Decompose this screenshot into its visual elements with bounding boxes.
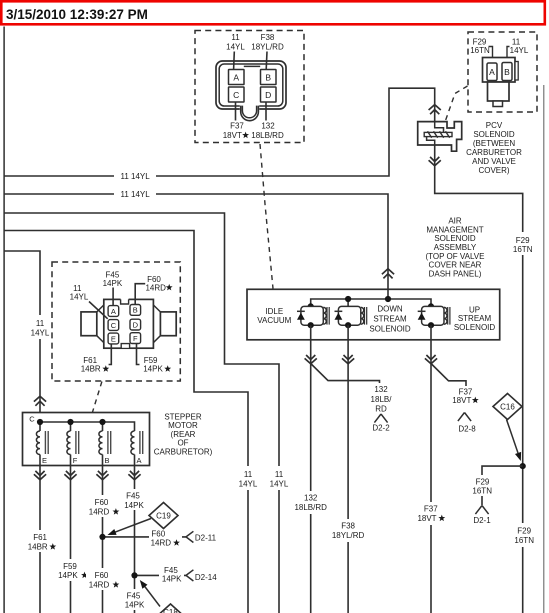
air management assembly box <box>247 289 500 340</box>
inline label F45 14PK (upper) <box>120 489 150 510</box>
inline label F59 14PK* <box>55 559 91 581</box>
stepper motor box <box>23 413 150 466</box>
arrow C18 to junction <box>143 584 161 607</box>
up chevrons on PCV feed wire <box>429 105 441 110</box>
svg-text:132: 132 <box>374 385 388 394</box>
svg-text:14RD: 14RD <box>151 539 172 548</box>
svg-text:F60: F60 <box>151 529 165 538</box>
svg-text:14YL: 14YL <box>239 480 258 489</box>
pin B (6-pin) <box>130 305 141 316</box>
left page border / bus line <box>3 27 5 613</box>
inline label F61 14BR* <box>24 530 60 552</box>
solenoid supply rail <box>311 299 431 306</box>
svg-text:A: A <box>233 73 239 83</box>
wire F37 18VT (up stream to bottom) <box>430 325 432 613</box>
inline label 11 14YL at x279 <box>265 466 294 490</box>
svg-text:14YL: 14YL <box>270 480 289 489</box>
svg-text:B: B <box>265 73 271 83</box>
label 11 14YL on wire <box>114 168 156 183</box>
svg-text:18VT: 18VT <box>223 131 242 140</box>
svg-text:3/15/2010 12:39:27 PM: 3/15/2010 12:39:27 PM <box>6 7 148 22</box>
dashed box (6-pin connector) <box>52 262 180 381</box>
svg-text:SOLENOID: SOLENOID <box>434 234 476 243</box>
label 11 14YL on wire2 <box>114 186 156 201</box>
inline label 132 18LB/RD <box>289 491 333 514</box>
svg-text:(REAR: (REAR <box>171 430 196 439</box>
svg-text:OF: OF <box>177 439 188 448</box>
rail junction dots <box>308 303 314 309</box>
label F60 14RD* (D2-11 stub) <box>149 528 182 547</box>
svg-text:E: E <box>111 334 116 343</box>
svg-text:16TN: 16TN <box>470 46 490 55</box>
svg-text:AND VALVE: AND VALVE <box>472 157 516 166</box>
idle vacuum solenoid U1 <box>301 306 323 325</box>
inline label F29 16TN (D2-1 stub) <box>467 475 498 496</box>
svg-text:CARBURETOR: CARBURETOR <box>466 148 522 157</box>
wire branch to D2-1 <box>482 466 523 505</box>
down chevrons on 132 wire <box>306 355 315 360</box>
svg-text:PCV: PCV <box>486 121 503 130</box>
connector body (6-pin) <box>104 299 154 348</box>
connector top lock tab <box>244 65 260 67</box>
leader from pin E (6-pin) <box>109 344 112 365</box>
stepper coil tails <box>39 455 41 466</box>
inline label F60 14RD* (lower) <box>86 568 122 590</box>
svg-text:COVER): COVER) <box>478 166 509 175</box>
pin E (6-pin) <box>108 333 119 344</box>
solenoid bottom terminal dots <box>308 322 314 328</box>
down chevrons on F37 wire <box>426 355 435 360</box>
connector symbol D2-11 <box>186 531 193 537</box>
junction dot B-wire <box>99 534 105 540</box>
svg-text:F38: F38 <box>261 33 275 42</box>
svg-text:C16: C16 <box>500 402 515 411</box>
dashed leader PCV connector to solenoid symbol <box>446 86 468 121</box>
leader hook to PCV pin B <box>507 47 510 58</box>
svg-text:RD: RD <box>375 405 387 414</box>
svg-text:14PK: 14PK <box>125 601 145 610</box>
svg-text:MANAGEMENT: MANAGEMENT <box>426 225 483 234</box>
svg-text:E: E <box>42 456 47 465</box>
svg-text:DASH PANEL): DASH PANEL) <box>429 269 482 278</box>
right page border line <box>543 85 545 613</box>
svg-text:14RD: 14RD <box>89 581 110 590</box>
svg-text:A: A <box>489 67 495 77</box>
svg-text:COVER NEAR: COVER NEAR <box>429 261 482 270</box>
svg-text:D2-1: D2-1 <box>473 516 491 525</box>
svg-text:14PK: 14PK <box>143 365 163 374</box>
PCV pin B <box>502 63 512 81</box>
svg-text:B: B <box>504 67 510 77</box>
svg-text:F45: F45 <box>126 492 140 501</box>
svg-text:F29: F29 <box>516 236 530 245</box>
dashed leader connector to air assembly <box>260 144 273 289</box>
down stream solenoid U2 <box>338 306 360 325</box>
down chevrons below PCV solenoid <box>430 157 439 162</box>
svg-text:D2-11: D2-11 <box>195 534 217 543</box>
svg-text:(BETWEEN: (BETWEEN <box>473 139 515 148</box>
svg-text:18YL/RD: 18YL/RD <box>251 43 284 52</box>
connector symbol D2-8 <box>458 413 465 422</box>
wire F61 14BR (pin E to bottom) <box>39 466 41 613</box>
svg-text:14YL: 14YL <box>131 190 150 199</box>
svg-text:18YL/RD: 18YL/RD <box>332 531 365 540</box>
splice branch to D2-8 <box>431 364 466 387</box>
svg-text:F61: F61 <box>33 533 47 542</box>
svg-text:14YL: 14YL <box>510 46 529 55</box>
svg-text:F29: F29 <box>476 477 490 486</box>
inline label F45 14PK (lower) <box>120 589 150 610</box>
svg-text:UP: UP <box>469 305 480 314</box>
svg-text:D2-2: D2-2 <box>372 424 390 433</box>
leader to pin B (6-pin) <box>135 284 145 305</box>
svg-text:STREAM: STREAM <box>373 315 407 324</box>
PCV connector body <box>483 58 516 83</box>
svg-text:11: 11 <box>36 319 45 328</box>
junction dot F29 wire <box>520 463 526 469</box>
stepper coil L4 <box>131 431 135 455</box>
PCV pin A <box>487 63 497 81</box>
svg-text:F: F <box>133 334 138 343</box>
svg-text:MOTOR: MOTOR <box>168 421 198 430</box>
pin C (6-pin) <box>108 320 119 331</box>
pin C <box>229 87 245 102</box>
svg-text:16TN: 16TN <box>513 245 533 254</box>
svg-text:C: C <box>29 415 35 424</box>
wire branch to D2-11 <box>103 536 187 538</box>
inline label F60 14RD* (upper) <box>86 495 122 517</box>
pin D (6-pin) <box>130 319 141 330</box>
svg-text:14PK: 14PK <box>58 571 78 580</box>
leader from pin C <box>235 102 237 121</box>
pin A <box>229 70 245 85</box>
connector C19 <box>149 503 178 529</box>
down chevrons on F45 wire <box>130 471 139 476</box>
connector bottom U notch <box>240 104 259 111</box>
wire F45 14PK (pin A to bottom) <box>134 466 136 613</box>
svg-text:D: D <box>265 90 271 100</box>
connector C18 <box>156 604 185 613</box>
wire branch to D2-14 <box>135 574 187 576</box>
inline label F29 16TN (lower) <box>509 523 541 547</box>
svg-text:VACUUM: VACUUM <box>257 316 291 325</box>
svg-text:F45: F45 <box>127 592 141 601</box>
leader from pin F (6-pin) <box>137 344 140 365</box>
svg-text:B: B <box>133 306 138 315</box>
junction dot A-wire <box>131 572 137 578</box>
svg-text:SOLENOID: SOLENOID <box>454 323 496 332</box>
svg-text:14PK: 14PK <box>162 575 182 584</box>
svg-text:14BR: 14BR <box>28 543 48 552</box>
pin B <box>261 70 277 85</box>
connector symbol D2-1 <box>475 506 482 515</box>
inline label 11 14YL at x248 <box>234 466 263 490</box>
svg-text:18LB/: 18LB/ <box>371 395 393 404</box>
svg-text:11: 11 <box>231 33 240 42</box>
stepper coil L2 <box>67 431 71 455</box>
up chevrons on air assembly feed wire <box>382 269 394 274</box>
svg-text:D2-14: D2-14 <box>195 573 217 582</box>
up stream solenoid U3 <box>422 306 444 325</box>
svg-text:14RD: 14RD <box>145 283 166 292</box>
svg-text:C19: C19 <box>156 511 171 520</box>
svg-text:14PK: 14PK <box>124 501 144 510</box>
splice branch to D2-2 <box>311 364 380 384</box>
wire 11 14YL (nested, to x248 bottom) <box>4 231 248 613</box>
svg-text:F37: F37 <box>230 122 244 131</box>
svg-text:AIR: AIR <box>448 217 462 226</box>
arrow C19 to junction <box>112 519 151 534</box>
connector symbol D2-14 <box>186 570 193 576</box>
svg-text:16TN: 16TN <box>472 487 492 496</box>
svg-text:18VT: 18VT <box>452 396 471 405</box>
svg-text:F59: F59 <box>63 562 77 571</box>
up chevrons above stepper motor <box>34 396 46 401</box>
svg-text:F38: F38 <box>341 522 355 531</box>
svg-text:F29: F29 <box>517 527 531 536</box>
pin D <box>261 87 277 102</box>
dashed box (4-pin connector) <box>195 31 304 143</box>
svg-text:STREAM: STREAM <box>458 314 492 323</box>
svg-text:F: F <box>73 456 78 465</box>
svg-text:11: 11 <box>244 470 253 479</box>
inline label F37 18VT* <box>412 502 450 525</box>
svg-text:F60: F60 <box>95 571 109 580</box>
svg-text:A: A <box>111 307 116 316</box>
wire 132 18LB/RD (idle vacuum to bottom) <box>310 325 312 613</box>
svg-text:132: 132 <box>304 494 318 503</box>
down chevrons on F61 wire <box>35 471 44 476</box>
svg-text:IDLE: IDLE <box>265 307 283 316</box>
svg-text:14YL: 14YL <box>131 172 150 181</box>
dashed leader 6-pin connector to stepper motor <box>92 382 102 413</box>
stepper rail dots <box>37 419 43 425</box>
svg-text:14PK: 14PK <box>103 279 123 288</box>
svg-text:14RD: 14RD <box>89 508 110 517</box>
wire 11 14YL (nested, to x279 bottom) <box>4 213 279 613</box>
label F45 14PK (D2-14 stub) <box>159 565 184 584</box>
wire F60 14RD (pin B to bottom) <box>102 466 104 613</box>
inline label F38 18YL/RD <box>325 519 371 542</box>
svg-text:(TOP OF VALVE: (TOP OF VALVE <box>426 252 485 261</box>
arrow C16 to junction <box>507 420 519 454</box>
leader to pin C (6-pin) <box>89 302 108 319</box>
PCV solenoid symbol <box>418 122 462 152</box>
svg-text:14YL: 14YL <box>70 293 89 302</box>
connector C16 <box>493 394 522 420</box>
svg-text:11: 11 <box>275 470 284 479</box>
connector symbol D2-2 <box>374 414 381 423</box>
svg-text:A: A <box>136 456 141 465</box>
leader hook to PCV pin A <box>489 47 493 58</box>
wire 11 14YL (to air management assembly) <box>4 194 388 290</box>
down chevrons on F38 wire <box>344 355 353 360</box>
down chevrons on F60 wire <box>98 471 107 476</box>
wire F29 16TN (PCV to bottom right) <box>435 144 523 613</box>
wire 11 14YL (to PCV solenoid) <box>4 88 435 176</box>
pin F (6-pin) <box>130 333 141 344</box>
svg-text:11: 11 <box>121 190 130 199</box>
pin A (6-pin) <box>108 306 119 317</box>
leader to pin A (6-pin) <box>112 288 114 306</box>
svg-text:F45: F45 <box>106 270 120 279</box>
stepper coil L1 <box>36 431 40 455</box>
svg-text:D: D <box>133 320 139 329</box>
svg-text:18LB/RD: 18LB/RD <box>294 503 327 512</box>
svg-text:11: 11 <box>121 172 130 181</box>
down chevrons on F59 wire <box>66 471 75 476</box>
svg-text:C18: C18 <box>163 608 178 613</box>
leader to pin A <box>233 52 236 70</box>
svg-text:SOLENOID: SOLENOID <box>473 130 515 139</box>
svg-text:14YL: 14YL <box>31 329 50 338</box>
svg-text:C: C <box>233 90 239 100</box>
svg-text:SOLENOID: SOLENOID <box>369 325 411 334</box>
svg-text:D2-8: D2-8 <box>458 424 476 433</box>
svg-text:B: B <box>104 456 109 465</box>
stepper rail wire <box>40 422 135 431</box>
svg-text:14YL: 14YL <box>226 43 245 52</box>
svg-text:C: C <box>111 321 117 330</box>
svg-text:ASSEMBLY: ASSEMBLY <box>434 243 477 252</box>
svg-text:F60: F60 <box>95 498 109 507</box>
leader to pin B <box>265 52 268 70</box>
red timestamp box <box>1 1 545 24</box>
svg-text:CARBURETOR): CARBURETOR) <box>154 448 213 457</box>
svg-text:18LB/RD: 18LB/RD <box>251 131 284 140</box>
connector body (4-pin) <box>216 61 286 109</box>
svg-text:F37: F37 <box>424 505 438 514</box>
wire F59 14PK (pin F to bottom) <box>70 466 72 613</box>
svg-text:DOWN: DOWN <box>377 305 403 314</box>
inline label 11 14YL at x40 <box>25 315 55 339</box>
stepper coil L3 <box>99 431 103 455</box>
svg-text:14BR: 14BR <box>81 365 101 374</box>
svg-text:18VT: 18VT <box>417 514 436 523</box>
inline label F29 16TN (upper) <box>507 232 539 255</box>
wire 11 14YL (to stepper motor pin C) <box>4 251 40 413</box>
leader from pin D <box>265 102 267 121</box>
svg-text:16TN: 16TN <box>514 536 534 545</box>
dashed box (PCV 2-pin connector) <box>468 32 537 112</box>
svg-text:132: 132 <box>261 122 275 131</box>
svg-text:STEPPER: STEPPER <box>164 412 202 421</box>
wire F38 18YL/RD (down stream to bottom) <box>347 325 349 613</box>
